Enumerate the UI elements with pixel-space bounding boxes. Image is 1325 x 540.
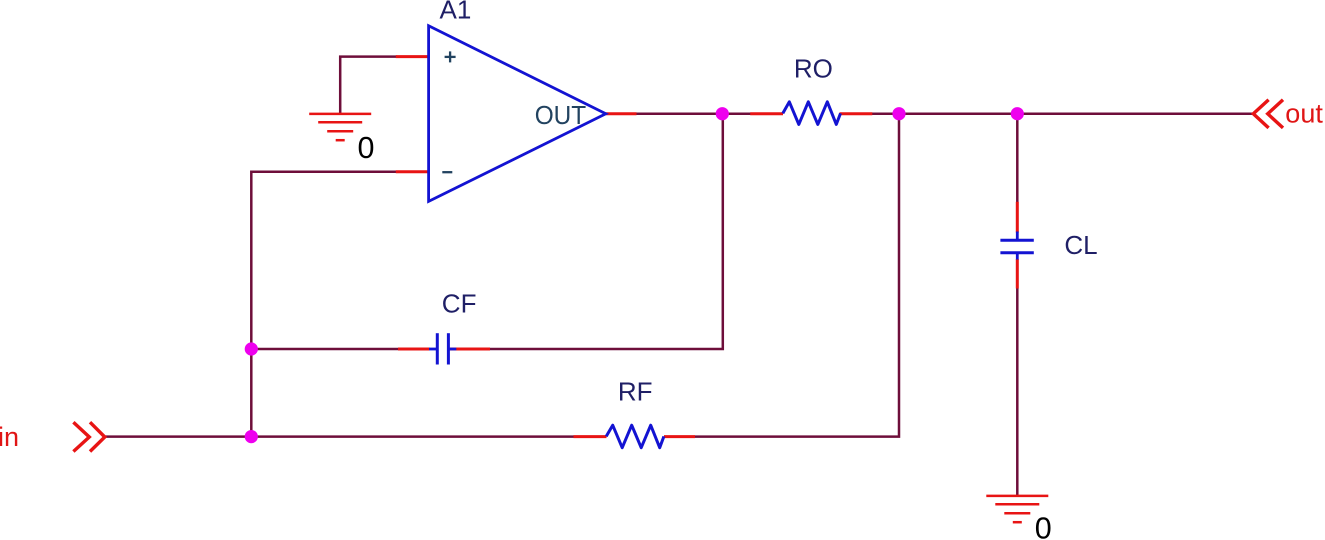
capacitor CF pin stub left xyxy=(398,348,430,351)
svg-text:OUT: OUT xyxy=(535,100,587,130)
junction node: RO right xyxy=(892,107,905,120)
svg-text:0: 0 xyxy=(1035,512,1052,540)
resistor RF pin stub right xyxy=(664,435,695,438)
ground G2 xyxy=(986,496,1048,522)
capacitor CF xyxy=(429,333,456,364)
wire: CF left to inverting column xyxy=(251,348,398,351)
wire: op-amp output to RO xyxy=(636,112,751,115)
op-amp A1 pin stub: noninverting input xyxy=(396,55,430,58)
resistor RO pin stub left xyxy=(750,112,783,115)
capacitor CF pin stub right xyxy=(450,348,490,351)
svg-text:out: out xyxy=(1285,98,1323,128)
capacitor CL xyxy=(1000,232,1033,260)
svg-text:CL: CL xyxy=(1064,230,1097,260)
op-amp A1 minus input marker xyxy=(442,171,452,173)
capacitor CL pin stub top xyxy=(1016,202,1019,233)
junction node: output xyxy=(716,107,729,120)
junction node: CL top xyxy=(1011,107,1024,120)
svg-text:CF: CF xyxy=(442,289,477,319)
wire: feedback from output node down to CF xyxy=(490,114,723,349)
wire: noninverting input to ground G1 xyxy=(340,57,397,114)
port out chevron xyxy=(1253,100,1283,128)
svg-text:0: 0 xyxy=(358,131,375,165)
svg-text:A1: A1 xyxy=(440,0,472,25)
resistor RO pin stub right xyxy=(840,112,873,115)
op-amp A1 pin stub: output xyxy=(606,112,637,115)
wire: CL down to ground G2 xyxy=(1016,288,1019,496)
port in chevron xyxy=(73,422,104,451)
svg-text:RO: RO xyxy=(794,53,833,83)
op-amp A1 triangle xyxy=(429,26,606,202)
wire: in port to RF xyxy=(105,435,575,438)
resistor RO xyxy=(783,102,841,125)
wire: RF right up to output rail xyxy=(695,114,900,437)
wire: output rail down to CL xyxy=(1016,114,1019,203)
op-amp A1 plus input marker xyxy=(445,51,456,62)
svg-text:in: in xyxy=(0,422,19,452)
capacitor CL pin stub bottom xyxy=(1016,259,1019,289)
op-amp A1 pin stub: inverting input xyxy=(396,170,430,173)
junction node: CF left xyxy=(245,342,258,355)
junction node: in xyxy=(245,430,258,443)
resistor RF xyxy=(606,425,664,448)
ground G1 xyxy=(309,114,371,140)
wire: inverting input left and down to feedback column xyxy=(251,172,397,437)
svg-text:RF: RF xyxy=(618,377,653,407)
resistor RF pin stub left xyxy=(574,435,607,438)
wire: RO to out port xyxy=(872,112,1253,115)
